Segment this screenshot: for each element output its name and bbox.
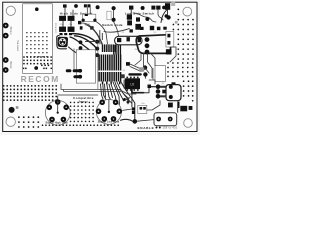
svg-text:U3: U3: [162, 83, 164, 85]
svg-text:Input: Input: [79, 100, 88, 104]
svg-text:+Vbridge: +Vbridge: [10, 25, 13, 35]
svg-text:Switch Node: Switch Node: [102, 23, 123, 27]
svg-text:Signal Low Data: Signal Low Data: [98, 120, 120, 123]
svg-text:1milli Farad: 1milli Farad: [56, 23, 58, 33]
svg-text:ENABLE: ENABLE: [138, 126, 155, 130]
svg-text:D2: D2: [154, 32, 156, 34]
svg-text:R4: R4: [135, 49, 137, 51]
svg-text:C4: C4: [123, 70, 125, 72]
svg-text:1000V Max: 1000V Max: [18, 39, 20, 51]
svg-text:100 to 420: 100 to 420: [163, 127, 178, 130]
svg-text:C1b: C1b: [69, 24, 72, 26]
svg-text:C3: C3: [122, 32, 124, 34]
svg-text:-Vbridge: -Vbridge: [10, 60, 13, 69]
svg-text:RECOM: RECOM: [21, 74, 60, 84]
svg-text:U2: U2: [130, 83, 134, 87]
svg-text:Signal High Data: Signal High Data: [45, 121, 68, 124]
